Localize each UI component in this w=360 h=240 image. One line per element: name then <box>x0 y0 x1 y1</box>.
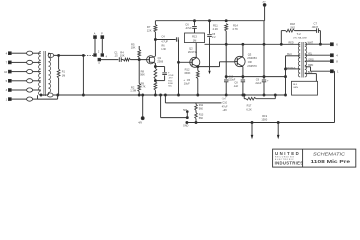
T2 left tap WHT/BLK <box>286 67 301 69</box>
resistor R9 <box>140 82 157 96</box>
svg-text:BLU: BLU <box>287 53 292 56</box>
rail B <box>205 43 301 45</box>
wire gain network left <box>160 94 162 118</box>
transistor Q3 <box>235 52 258 67</box>
svg-text:C10: C10 <box>222 102 227 105</box>
svg-text:150K: 150K <box>184 71 190 75</box>
return bus <box>58 94 286 96</box>
wire T1 bottom <box>40 94 59 96</box>
resistor R11 <box>213 23 228 45</box>
svg-text:ORG: ORG <box>308 58 314 61</box>
Q2 base line <box>178 40 180 96</box>
svg-text:6.2K: 6.2K <box>246 108 252 112</box>
wire gain network bottom <box>161 117 189 119</box>
svg-text:BLK: BLK <box>308 71 313 74</box>
svg-text:C6: C6 <box>185 22 189 26</box>
input terminal 1 <box>6 97 38 101</box>
ground bus <box>186 122 335 124</box>
svg-text:.22uF: .22uF <box>255 81 262 85</box>
svg-text:INDUSTRIES: INDUSTRIES <box>275 160 304 165</box>
svg-text:WHT/BLK: WHT/BLK <box>286 67 296 69</box>
title 1108 Mic Pre <box>311 159 351 165</box>
ground bus label <box>183 124 189 127</box>
svg-text:10: 10 <box>4 70 8 74</box>
svg-text:.15: .15 <box>114 54 118 58</box>
title INDUSTRIES <box>275 160 304 165</box>
resistor R21 <box>195 103 204 111</box>
svg-text:+9V: +9V <box>222 109 227 112</box>
input terminal 4 <box>6 88 41 92</box>
svg-text:SCHEMATIC: SCHEMATIC <box>313 151 346 156</box>
svg-text:OR: OR <box>248 60 252 64</box>
capacitor C6 <box>185 21 197 33</box>
wire T1 top to pad <box>54 54 84 56</box>
resistor R19 label <box>261 114 267 122</box>
svg-text:RED: RED <box>289 41 294 44</box>
svg-text:R19: R19 <box>262 114 267 118</box>
svg-text:2.2: 2.2 <box>212 36 216 39</box>
resistor R5 <box>131 42 141 59</box>
wire C1 to R4 <box>121 59 123 61</box>
T2 left tap RED <box>289 41 294 44</box>
svg-text:.1uF: .1uF <box>233 85 238 88</box>
transformer T1 secondary winding <box>48 53 50 93</box>
wire dashed strap <box>85 54 94 56</box>
transformer T1 primary winding <box>39 52 41 96</box>
svg-text:.0047: .0047 <box>311 25 318 29</box>
svg-text:UNITED: UNITED <box>275 151 300 156</box>
T2 left return riser <box>285 56 287 96</box>
output terminal 6 <box>305 42 338 47</box>
input terminal 4 <box>6 51 41 55</box>
svg-text:C9: C9 <box>256 77 260 81</box>
svg-text:-1+7: -1+7 <box>222 99 227 101</box>
transformer T1 core <box>44 51 46 96</box>
svg-text:4.7K: 4.7K <box>232 27 238 31</box>
svg-text:2N3053: 2N3053 <box>247 56 257 60</box>
gain pot <box>183 109 188 118</box>
svg-text:BLK: BLK <box>293 84 298 86</box>
transformer T2 label <box>293 32 308 39</box>
resistor R17 <box>243 94 276 111</box>
capacitor C1 <box>114 50 121 62</box>
svg-text:2N3570: 2N3570 <box>247 64 257 68</box>
capacitor C13 <box>224 44 236 96</box>
title block frame <box>273 149 356 167</box>
svg-text:T-2: T-2 <box>297 32 301 36</box>
capacitor C8 <box>233 77 245 96</box>
resistor R14 label <box>232 23 238 31</box>
svg-text:R14: R14 <box>233 23 238 27</box>
shield box <box>292 81 318 95</box>
svg-text:R11: R11 <box>213 23 218 27</box>
svg-text:1M: 1M <box>62 74 65 77</box>
resistor R13 box <box>185 33 205 43</box>
input terminal 5 <box>6 79 41 83</box>
wire R18 to C7 <box>281 30 316 32</box>
svg-text:1.3K: 1.3K <box>161 48 166 51</box>
Q2 emitter lead <box>197 67 199 71</box>
capacitor C2 riser <box>207 21 216 74</box>
ground arrow 1 <box>251 123 254 140</box>
svg-text:R13: R13 <box>199 113 204 116</box>
svg-text:GND: GND <box>183 124 189 127</box>
resistor R12 <box>196 71 199 96</box>
svg-text:GRN: GRN <box>293 87 298 89</box>
wire output rail <box>263 21 265 78</box>
T2 bottom tap BLK <box>305 71 317 81</box>
capacitor C4 <box>161 35 178 51</box>
svg-text:10uF: 10uF <box>184 81 190 85</box>
svg-text:R17: R17 <box>247 104 252 108</box>
wire gain network top <box>164 94 221 103</box>
svg-text:WHT: WHT <box>308 42 314 45</box>
svg-text:1108 Mic Pre: 1108 Mic Pre <box>311 159 351 165</box>
pad output terminal 3 <box>98 58 100 65</box>
resistor R22 <box>195 110 204 123</box>
svg-text:56K: 56K <box>140 73 145 77</box>
svg-text:4.2K: 4.2K <box>213 27 219 31</box>
svg-text:.47uF: .47uF <box>185 26 192 30</box>
svg-text:1500: 1500 <box>261 118 267 122</box>
emitter node wire <box>226 76 286 78</box>
wire lower loop <box>38 95 58 99</box>
svg-text:12K: 12K <box>147 28 152 32</box>
svg-text:5030: 5030 <box>168 83 174 85</box>
svg-text:+: + <box>183 78 185 82</box>
transformer T2 primary winding <box>298 42 300 77</box>
svg-text:560: 560 <box>199 107 204 110</box>
node Q1 drain branch <box>154 39 175 41</box>
svg-text:560: 560 <box>199 117 204 120</box>
power entry +9V <box>262 2 266 21</box>
feedback riser <box>280 31 282 45</box>
output terminal 8 <box>305 58 338 63</box>
transformer T2 secondary winding <box>305 42 307 77</box>
svg-text:YEL: YEL <box>308 53 313 56</box>
pad terminal B <box>101 33 104 57</box>
output terminal 4 <box>305 53 338 58</box>
svg-text:47V: 47V <box>169 78 173 80</box>
resistor R12 label <box>184 68 190 76</box>
resistor R4 <box>120 50 131 61</box>
wire R4 to Q1 gate <box>130 59 146 61</box>
svg-text:1M: 1M <box>193 38 197 42</box>
capacitor C10 label <box>222 99 228 113</box>
wire C7 to output <box>318 31 321 46</box>
svg-text:R12: R12 <box>185 68 190 72</box>
transformer T2 core <box>302 42 303 78</box>
svg-text:BRN: BRN <box>308 64 313 67</box>
capacitor C9 <box>255 77 269 96</box>
title SCHEMATIC <box>313 151 346 156</box>
svg-text:10K: 10K <box>131 46 136 50</box>
svg-text:4/9: 4/9 <box>138 121 142 125</box>
input terminal 10 <box>4 70 41 74</box>
Q3 emitter lead <box>242 67 244 78</box>
capacitor C5 label <box>183 78 190 86</box>
svg-text:47uF: 47uF <box>222 105 228 108</box>
transistor Q1 <box>147 56 164 64</box>
capacitor C7 <box>311 22 318 33</box>
resistor R18 <box>286 22 296 32</box>
svg-text:UTC HA-108X: UTC HA-108X <box>293 36 308 39</box>
svg-text:C7: C7 <box>314 22 318 26</box>
T1 secondary top pin <box>48 53 54 57</box>
node 4/9 drop <box>138 94 144 125</box>
capacitor C3 bypass loop <box>154 66 174 88</box>
title recording electronics <box>275 157 295 161</box>
svg-text:+9V: +9V <box>262 2 266 4</box>
supply rail <box>155 20 264 22</box>
svg-text:10K: 10K <box>120 54 125 58</box>
title UNITED <box>275 151 300 156</box>
output terminal 1 <box>305 64 339 73</box>
svg-text:1.3M: 1.3M <box>130 89 137 93</box>
resistor R2 <box>130 60 140 96</box>
wire pad to C1 <box>101 59 119 61</box>
ground bus riser <box>333 71 334 122</box>
resistor R8 <box>140 63 157 82</box>
svg-text:Q2: Q2 <box>189 46 193 50</box>
T2 left tap BLU <box>286 53 301 56</box>
T1 secondary bottom pin <box>47 93 53 98</box>
svg-text:562: 562 <box>291 25 296 29</box>
pad terminal A <box>94 33 97 57</box>
Q2 collector lead <box>195 43 197 58</box>
svg-text:R18: R18 <box>290 22 295 26</box>
input terminal 7 <box>6 60 41 64</box>
wire riser to return bus <box>82 54 84 96</box>
svg-text:Q1: Q1 <box>158 56 162 60</box>
Q1 drain lead <box>154 32 156 57</box>
resistor R7 <box>147 21 157 33</box>
resistor R1 <box>57 55 65 95</box>
svg-text:R11: R11 <box>199 104 204 107</box>
Q3 collector lead <box>241 44 244 57</box>
node 2 label <box>98 51 108 59</box>
svg-text:4.7K: 4.7K <box>140 85 146 89</box>
transistor Q2 <box>179 46 200 67</box>
svg-text:4.7UF: 4.7UF <box>161 40 168 43</box>
ground arrow 2 <box>277 123 280 140</box>
svg-text:C5: C5 <box>187 78 191 82</box>
svg-text:2369: 2369 <box>157 60 163 64</box>
wire Q2 emitter to Q3 base <box>197 62 235 68</box>
Q1 source lead <box>154 63 156 69</box>
svg-text:R13: R13 <box>192 34 197 38</box>
svg-text:Q3: Q3 <box>248 52 252 56</box>
